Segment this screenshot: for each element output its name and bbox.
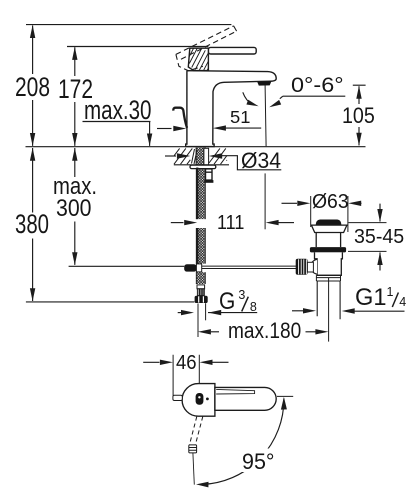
- label max.180: [228, 320, 301, 342]
- label 111: [217, 213, 244, 233]
- dimension max.180 arrows: [198, 329, 329, 334]
- mounting flange below deck: [190, 165, 216, 169]
- plan view lever centerline: [193, 453, 194, 485]
- label G1 1/4 superscript 1: [387, 286, 394, 299]
- G 3/8 nut: [195, 296, 208, 303]
- supply pipe crosshatch lower segment: [196, 272, 205, 284]
- pop-up rod inside pipe: [196, 168, 198, 264]
- supply shank crosshatch through deck: [196, 148, 205, 165]
- faucet body outline: [186, 71, 277, 147]
- hose end striped section: [197, 289, 204, 296]
- deck hatching right: [209, 148, 227, 164]
- deck section bottom line: [174, 164, 229, 166]
- plan view pivot dot: [206, 398, 209, 401]
- deck hatching left: [174, 148, 192, 164]
- dimension 35-45 extension lines: [348, 223, 387, 252]
- label G1 1/4 subscript 4: [399, 296, 406, 309]
- tailpipe centerline: [328, 278, 330, 342]
- spout tip extension line: [264, 173, 266, 229]
- dimension 46 extension lines: [173, 355, 199, 396]
- supply pipe crosshatch middle segment: [196, 228, 205, 264]
- pop-up rod horizontal: [202, 266, 297, 268]
- 0-6 leader arrow: [269, 96, 283, 107]
- label Ø34: [241, 150, 281, 172]
- label max.: [53, 175, 97, 199]
- dimension Ø63 extension lines: [311, 196, 348, 232]
- label 0°-6° with underline: [283, 95, 346, 97]
- dimension 105 vertical with arrows: [356, 86, 361, 146]
- dimension Ø63 arrows: [282, 201, 362, 206]
- pop-up waste upper body: [316, 233, 340, 248]
- 95° label white backing: [240, 449, 278, 473]
- pop-up waste o-ring: [310, 247, 346, 252]
- label 380: [15, 211, 49, 238]
- dimension max.300 vertical below deck: [72, 148, 77, 266]
- mounting bolt below flange: [204, 169, 213, 183]
- dimension 380 vertical below deck: [30, 148, 35, 302]
- label 35-45: [354, 227, 404, 248]
- label max.30: [84, 97, 152, 124]
- label max.30 with underline: [83, 121, 151, 123]
- dimension Ø34 arrows at shank: [165, 153, 222, 158]
- pop-up waste upper flange: [311, 225, 347, 232]
- label 300: [56, 197, 92, 221]
- pop-up rod handle hook at back of body: [173, 108, 187, 128]
- label 51: [230, 109, 250, 127]
- dimension G 3/8 arrows: [178, 310, 258, 315]
- dimension 51 right arrow and line: [213, 125, 261, 130]
- lever raised position (dashed): [176, 26, 237, 71]
- shank skirt lines left: [192, 149, 198, 164]
- label 0°-6°: [291, 75, 344, 96]
- hose collar white band: [197, 285, 205, 289]
- dimension G1 1/4 arrows: [292, 308, 405, 314]
- max.300 bottom extension line: [69, 265, 185, 267]
- label G1 1/4: [392, 293, 398, 308]
- plan view base: [182, 384, 215, 417]
- max.180 left extension line: [197, 304, 199, 338]
- plan view lever swung (dashed): [189, 417, 202, 446]
- rod-knob connector: [307, 262, 313, 272]
- supply pipe crosshatch upper segment: [196, 169, 205, 220]
- shank smooth column right: [204, 148, 209, 164]
- label G 3/8 subscript 8: [250, 301, 257, 314]
- label 208: [15, 74, 50, 101]
- plan view rod tab: [173, 395, 182, 400]
- label 105: [342, 105, 375, 127]
- dimension 35-45 vertical with arrows: [377, 204, 382, 271]
- dimension 105 top tick: [353, 84, 366, 86]
- dimension 208 vertical with arrows: [30, 25, 35, 146]
- tailpipe: [317, 281, 340, 319]
- dimension 208 extension line top: [26, 24, 231, 26]
- water stream line: [265, 85, 266, 146]
- label G1 1/4 part G1: [355, 286, 387, 310]
- lever handle bar: [208, 47, 256, 54]
- max.30 pointer with arrow: [147, 122, 152, 147]
- 380 bottom extension line: [26, 301, 195, 303]
- pop-up waste cap: [316, 220, 342, 225]
- label G 3/8 part G: [219, 290, 235, 314]
- hose stub right edge below nut: [205, 303, 207, 320]
- dimension 111 left arrow: [171, 220, 197, 225]
- plan view lever end fitting: [189, 445, 197, 453]
- swivel reference line: [277, 395, 293, 397]
- lever base hatching: [189, 48, 208, 70]
- tailpipe coupler: [316, 275, 340, 281]
- plan view spout capsule: [215, 387, 276, 410]
- label G 3/8 superscript 3: [238, 289, 245, 302]
- pop-up waste mid body: [315, 252, 343, 275]
- rod knob knurled: [296, 259, 308, 275]
- dimension 46 arrows: [143, 360, 228, 365]
- dimension 51 left arrow: [157, 126, 186, 131]
- label 46: [176, 353, 197, 374]
- plan view spout channel: [216, 389, 254, 394]
- deck section top line: [26, 146, 366, 148]
- 0-6 adjustment arc: [243, 92, 259, 106]
- dimension 111 right arrow: [266, 220, 294, 225]
- rod housing bulge: [311, 259, 318, 274]
- dimension 172 vertical with arrows: [72, 47, 77, 146]
- dimension 172 extension line: [67, 46, 208, 48]
- rod clamp at pipe: [184, 264, 202, 272]
- label 95°: [242, 451, 275, 473]
- label 172: [58, 76, 93, 103]
- label Ø63: [312, 192, 349, 213]
- Ø34 leader line: [222, 156, 282, 170]
- plan view cartridge blob: [196, 393, 204, 405]
- lever base block: [188, 48, 208, 70]
- label G 3/8: [242, 297, 249, 312]
- swivel 95 arc: [196, 397, 287, 488]
- aerator: [257, 81, 271, 85]
